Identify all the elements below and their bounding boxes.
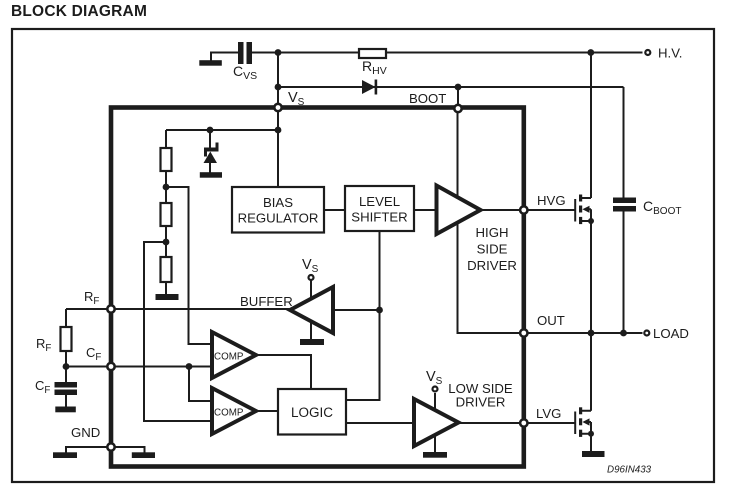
wire low side ground lead xyxy=(434,435,436,453)
wire COMP1 output to LOGIC xyxy=(256,355,311,389)
wire BIAS to LEVEL xyxy=(324,209,345,211)
pin CF xyxy=(107,363,114,370)
junction dot VS bus left xyxy=(207,127,214,134)
svg-text:SIDE: SIDE xyxy=(477,242,508,257)
pin HVG xyxy=(520,206,527,213)
wire CVS ground lead xyxy=(210,52,212,62)
junction dot CVS / H.V. rail xyxy=(275,49,282,56)
svg-text:BOOT: BOOT xyxy=(409,91,446,106)
svg-text:CF: CF xyxy=(35,378,50,396)
wire CBOOT bottom lead to OUT xyxy=(623,212,625,334)
wire tap2 to COMP2 xyxy=(144,242,212,421)
svg-text:LOAD: LOAD xyxy=(653,326,689,341)
ground (GND pin right) xyxy=(132,452,155,458)
wire high side mosfet drain from H.V. xyxy=(590,53,592,199)
block LEVEL SHIFTER xyxy=(345,186,414,231)
op-amp U1 high side driver triangle xyxy=(437,186,481,235)
capacitor CBOOT xyxy=(613,198,636,212)
junction dot divider tap1 xyxy=(163,184,170,191)
wire LOGIC to low side triangle xyxy=(346,422,414,424)
ground (low side mosfet) xyxy=(582,451,605,457)
junction dot Q1 source xyxy=(588,218,594,224)
wire LEVEL to high side triangle xyxy=(414,209,437,211)
svg-text:CF: CF xyxy=(86,345,101,363)
block BIAS REGULATOR xyxy=(232,187,324,233)
wire OUT line to LOAD xyxy=(526,332,643,334)
svg-text:RF: RF xyxy=(84,289,99,307)
svg-text:COMP: COMP xyxy=(214,408,244,419)
resistor R1 (chain top) xyxy=(161,148,172,171)
svg-text:LOGIC: LOGIC xyxy=(291,405,333,420)
wire GND right xyxy=(111,447,145,453)
pin LVG xyxy=(520,419,527,426)
svg-text:BIAS: BIAS xyxy=(263,195,293,210)
svg-text:RHV: RHV xyxy=(362,58,387,77)
wire low side output to LVG xyxy=(458,422,521,424)
wire BOOT line (y=87) xyxy=(278,86,624,88)
resistor R2 (chain middle) xyxy=(161,203,172,226)
wire CBOOT top lead xyxy=(623,87,625,198)
wire CF line to COMP1 xyxy=(66,366,212,368)
IC boundary box xyxy=(111,108,524,467)
svg-text:BLOCK DIAGRAM: BLOCK DIAGRAM xyxy=(11,3,147,20)
terminal VS buffer xyxy=(309,275,314,280)
pin GND xyxy=(107,443,114,450)
svg-text:DRIVER: DRIVER xyxy=(467,258,517,273)
svg-text:VS: VS xyxy=(302,257,319,275)
wire external CF to ground xyxy=(65,395,67,407)
terminal H.V. xyxy=(645,50,650,55)
wire RF line to buffer tip xyxy=(66,308,290,310)
high side driver section box xyxy=(458,111,521,333)
junction dot H.V. drain branch xyxy=(587,49,594,56)
svg-text:VS: VS xyxy=(426,369,443,387)
svg-text:OUT: OUT xyxy=(537,313,565,328)
block LOGIC xyxy=(278,389,346,435)
capacitor CF external xyxy=(55,382,78,395)
pin RF xyxy=(107,305,114,312)
ground (GND pin left) xyxy=(53,452,77,458)
wire buffer ground lead xyxy=(310,320,312,340)
svg-text:BUFFER: BUFFER xyxy=(240,294,293,309)
svg-text:D96IN433: D96IN433 xyxy=(607,465,652,476)
wire HVG gate lead xyxy=(526,209,575,211)
junction dot BOOT pin branch xyxy=(455,84,462,91)
svg-text:LEVEL: LEVEL xyxy=(359,194,400,209)
junction dot Q2 source xyxy=(588,431,594,437)
wire high side output to HVG xyxy=(480,209,521,211)
junction dot RF/CF external xyxy=(63,363,70,370)
resistor RF external xyxy=(61,327,72,351)
wire tap1 to COMP1 xyxy=(166,187,212,344)
resistor RHV xyxy=(359,49,386,58)
wire LVG gate lead xyxy=(526,422,575,424)
svg-text:VS: VS xyxy=(288,90,305,108)
wire CF branch to COMP2 xyxy=(189,367,212,402)
wire COMP2 output to LOGIC xyxy=(256,410,278,412)
svg-text:GND: GND xyxy=(71,425,100,440)
ground (zener) xyxy=(200,172,222,178)
svg-text:CVS: CVS xyxy=(233,63,257,82)
wire VS pin drop xyxy=(277,87,279,187)
svg-text:DRIVER: DRIVER xyxy=(456,395,506,410)
svg-text:SHIFTER: SHIFTER xyxy=(351,210,407,225)
wire BOOT branch down to pin xyxy=(457,87,459,106)
wire level shifter to logic vertical xyxy=(346,231,380,400)
resistor R3 (chain bottom) xyxy=(161,257,172,282)
svg-text:REGULATOR: REGULATOR xyxy=(238,211,319,226)
svg-text:COMP: COMP xyxy=(214,352,244,363)
junction dot OUT / CBOOT node xyxy=(620,330,627,337)
wire zener stub xyxy=(209,130,211,173)
pin OUT xyxy=(520,329,527,336)
diode D1 (boot diode) xyxy=(362,80,377,95)
wire buffer VS lead xyxy=(310,281,312,302)
svg-text:RF: RF xyxy=(36,336,51,354)
ground (CF external) xyxy=(55,407,76,413)
wire VS drop from H.V. rail xyxy=(277,53,279,88)
op-amp U5 low side driver triangle xyxy=(414,399,459,446)
ground (resistor chain) xyxy=(156,294,179,300)
wire low side VS lead xyxy=(434,393,436,411)
junction dot buffer output xyxy=(376,307,383,314)
capacitor CVS xyxy=(238,42,252,64)
terminal LOAD xyxy=(644,331,649,336)
pin BOOT xyxy=(454,105,461,112)
svg-text:CBOOT: CBOOT xyxy=(643,198,681,217)
wire external RF branch xyxy=(65,309,67,382)
wire low side mosfet source to ground xyxy=(590,434,592,452)
wire low side mosfet drain from OUT xyxy=(590,333,592,411)
svg-text:H.V.: H.V. xyxy=(658,46,682,61)
zener diode DZ xyxy=(204,143,219,164)
junction dot VS bus at pin drop xyxy=(275,127,282,134)
svg-text:LVG: LVG xyxy=(536,406,561,421)
junction dot VS / BOOT line xyxy=(275,84,282,91)
wire buffer output xyxy=(333,309,380,311)
op-amp U2 buffer triangle (points left) xyxy=(290,287,333,333)
svg-text:HIGH: HIGH xyxy=(476,225,509,240)
op-amp U3 comparator COMP1 xyxy=(212,332,256,378)
wire resistor chain vertical xyxy=(165,130,167,294)
junction dot OUT / mosfet node xyxy=(588,330,595,337)
svg-text:HVG: HVG xyxy=(537,193,566,208)
ground (CVS) xyxy=(199,60,222,65)
junction dot CF line branch xyxy=(186,363,193,370)
wire GND left xyxy=(66,447,111,453)
ground (low side driver) xyxy=(423,452,447,458)
pin VS xyxy=(274,104,281,111)
wire H.V. rail (y=52.5) xyxy=(211,52,643,54)
op-amp U4 comparator COMP2 xyxy=(212,388,256,434)
wire internal VS bus (y=130) xyxy=(166,129,278,131)
transistor Q2 low side mosfet xyxy=(575,407,591,437)
junction dot divider tap2 xyxy=(163,239,170,246)
terminal VS low side xyxy=(433,387,438,392)
wire high side mosfet source to OUT xyxy=(590,221,592,333)
ground (buffer) xyxy=(300,339,324,345)
transistor Q1 high side mosfet xyxy=(575,195,591,225)
